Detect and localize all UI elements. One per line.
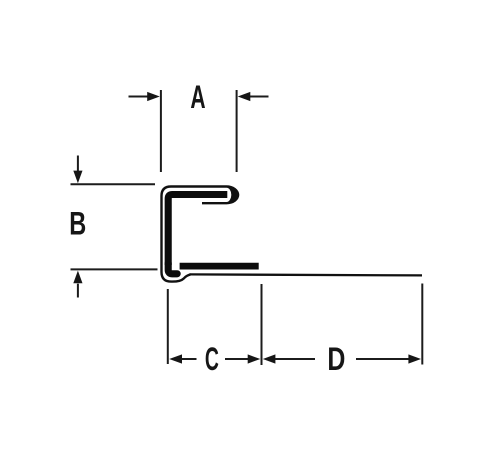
dim D right extension line bbox=[421, 284, 423, 365]
hem return line bbox=[202, 202, 227, 204]
svg-text:B: B bbox=[69, 205, 86, 241]
svg-text:D: D bbox=[327, 341, 345, 377]
svg-text:A: A bbox=[190, 79, 205, 115]
substrate line bbox=[190, 274, 423, 275]
hem end fold cap bbox=[227, 185, 240, 204]
dim B top extension line bbox=[71, 183, 156, 185]
dim A right arrow bbox=[238, 92, 269, 101]
dim A left extension line bbox=[160, 90, 162, 172]
dim C left arrow bbox=[169, 354, 196, 363]
dim B top arrow bbox=[73, 156, 82, 184]
dim D right arrow bbox=[356, 354, 421, 363]
dim C left extension line bbox=[167, 289, 169, 364]
dim A right extension line bbox=[236, 90, 238, 172]
profile bottom flange bbox=[180, 263, 259, 270]
dim C right arrow bbox=[225, 354, 260, 363]
dim A left arrow bbox=[129, 92, 160, 101]
dim C/D middle extension line bbox=[261, 284, 263, 365]
profile metal C-channel bbox=[168, 195, 227, 266]
dim B bottom extension line bbox=[71, 268, 158, 270]
dim B bottom arrow bbox=[73, 271, 82, 298]
dim D left arrow bbox=[263, 354, 315, 363]
svg-text:C: C bbox=[205, 341, 219, 377]
profile outer outline bbox=[162, 187, 227, 282]
profile metal bottom curl stub bbox=[168, 263, 177, 274]
